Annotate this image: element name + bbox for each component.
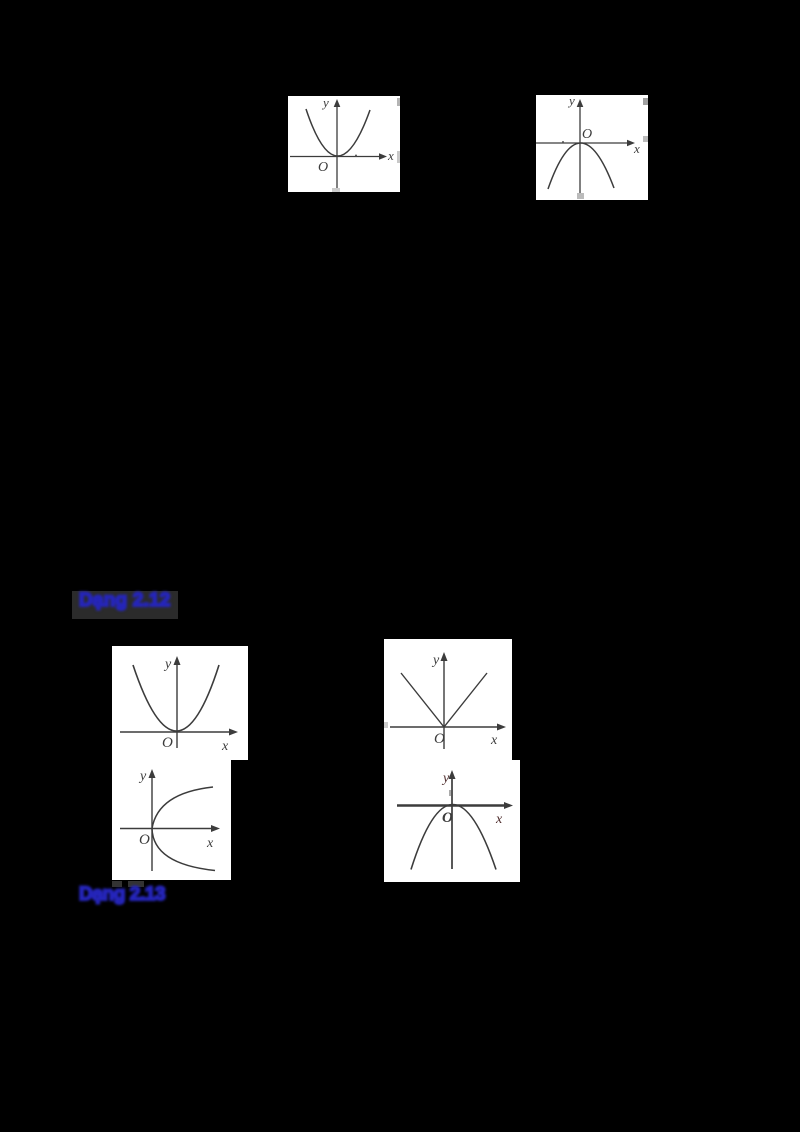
svg-text:y: y (441, 771, 450, 786)
svg-text:x: x (387, 148, 394, 163)
svg-text:O: O (318, 160, 328, 175)
svg-text:O: O (162, 735, 173, 751)
svg-text:x: x (495, 812, 503, 827)
svg-text:x: x (221, 739, 229, 754)
svg-text:x: x (206, 836, 214, 851)
svg-text:O: O (442, 810, 453, 826)
svg-text:O: O (582, 127, 592, 142)
svg-text:y: y (567, 95, 575, 108)
svg-text:y: y (321, 96, 329, 110)
svg-text:O: O (139, 832, 150, 848)
svg-text:y: y (138, 769, 147, 784)
svg-text:x: x (490, 733, 498, 748)
svg-text:y: y (431, 653, 440, 668)
svg-text:O: O (434, 731, 445, 747)
svg-text:x: x (633, 141, 640, 156)
svg-text:y: y (163, 657, 172, 672)
